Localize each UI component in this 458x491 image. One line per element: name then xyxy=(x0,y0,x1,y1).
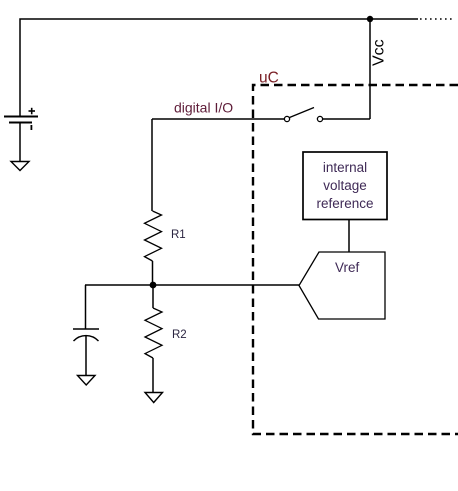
svg-text:Vcc: Vcc xyxy=(371,39,388,66)
svg-text:voltage: voltage xyxy=(323,178,367,193)
svg-text:reference: reference xyxy=(316,196,373,211)
svg-text:R2: R2 xyxy=(172,329,187,341)
node junction Vcc rail xyxy=(367,16,373,22)
battery V1 xyxy=(4,108,38,130)
label internal voltage reference xyxy=(316,160,373,211)
wire junction horizontal to Vref point xyxy=(85,284,299,286)
svg-text:Vref: Vref xyxy=(335,260,360,275)
Vref buffer pentagon xyxy=(299,252,385,319)
wire top rail from battery + to junction xyxy=(20,19,418,116)
capacitor C1 xyxy=(73,329,99,341)
ground capacitor xyxy=(78,376,96,386)
wire battery - to ground xyxy=(19,123,21,162)
svg-text:internal: internal xyxy=(323,160,367,175)
wire digital I/O down to R1 xyxy=(151,119,153,211)
wire digital I/O to switch xyxy=(152,118,284,120)
uC box dashed outline xyxy=(253,85,458,434)
wire R1 to junction xyxy=(152,261,154,285)
svg-text:uC: uC xyxy=(259,70,279,87)
wire dotted continuation of top rail xyxy=(420,18,452,20)
wire R2 to ground xyxy=(152,358,154,392)
switch S1 xyxy=(284,108,322,122)
resistor R2 xyxy=(145,308,162,358)
resistor R1 xyxy=(145,211,162,261)
wire switch to Vcc drop xyxy=(323,118,370,120)
wire junction down to R2 xyxy=(152,285,154,308)
wire capacitor to ground xyxy=(85,336,87,376)
node junction divider xyxy=(150,282,157,289)
ground R2 xyxy=(145,393,163,403)
wire Vcc drop into uC xyxy=(369,19,371,119)
ground battery xyxy=(11,162,29,171)
internal voltage reference box xyxy=(303,152,387,220)
wire down to capacitor xyxy=(85,285,87,329)
wire reference box to Vref buffer xyxy=(348,220,350,253)
svg-text:digital I/O: digital I/O xyxy=(174,100,233,116)
svg-text:R1: R1 xyxy=(171,229,186,241)
